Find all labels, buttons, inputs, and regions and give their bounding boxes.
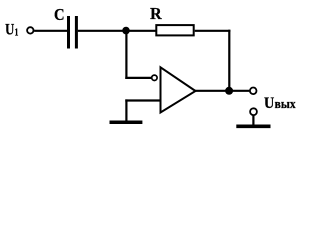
wire capacitor to resistor [78,30,157,32]
ground bar (non-inverting input) [110,120,143,124]
resistor R [156,25,193,35]
wire node A down (vertical segment to inverting input) [125,31,127,79]
capacitor C [69,16,77,49]
output junction dot [225,87,233,95]
svg-text:C: C [54,5,65,24]
node A junction dot (C, R, inverting input) [122,27,130,35]
wire non-inverting input (horizontal segment) [125,99,159,101]
input terminal circle [27,27,33,33]
output terminal circle (upper) [250,88,257,95]
wire resistor to top-right corner [195,30,231,32]
svg-text:R: R [150,4,162,23]
wire to inverting input (horizontal segment) [125,77,151,79]
svg-text:U: U [264,93,275,112]
wire op-amp output to output terminal [195,90,249,92]
svg-text:U: U [5,19,14,38]
svg-text:вых: вых [275,97,297,111]
wire lower terminal stub [252,115,254,125]
op-amp U1 triangle [161,67,196,112]
common rail bar (lower terminal) [236,124,270,128]
label U1 (input voltage) [5,19,18,38]
label Uvyh (output voltage) [264,93,296,112]
wire non-inverting input down to ground (vertical segment) [125,99,127,120]
svg-text:1: 1 [15,26,19,38]
output terminal circle (lower, common) [250,108,257,115]
wire input terminal to capacitor [34,30,67,32]
inverting input circle [152,75,157,80]
wire right vertical (feedback down to output) [228,30,230,91]
